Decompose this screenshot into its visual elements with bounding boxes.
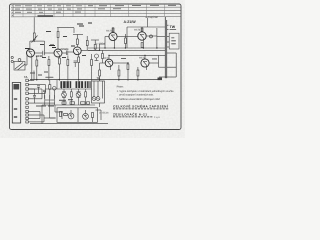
svg-text:CELKOVÉ SCHÉMA ZAPOJENÍ: CELKOVÉ SCHÉMA ZAPOJENÍ [113,105,168,109]
input pickup box [14,62,25,71]
svg-text:prvků zapojení uvedených zde.: prvků zapojení uvedených zde. [119,93,154,97]
potentiometer P3 (gain) [95,54,99,58]
supply rail wires (node +U) [88,47,165,49]
svg-text:OC72: OC72 [134,29,141,32]
svg-text:OC604: OC604 [61,48,70,51]
resistor R20 and capacitor C10 cluster [49,85,51,90]
rectifier module TR box [92,81,105,103]
wire runs left of output module [42,95,63,124]
transistor T4 [109,32,117,40]
wire (preamp output to power amp) [99,44,101,50]
input selector switch S1 [12,83,20,124]
svg-text:ZESILOVAČE A-21: ZESILOVAČE A-21 [113,113,148,117]
transistor T2 [54,49,62,57]
trimmer potentiometers P1 P2 and resistors [57,80,87,105]
resistor R3 (T1 emitter) [36,60,38,66]
transformer box with winding labels [169,33,179,49]
input jack at border [11,56,13,58]
capacitor C3 (T2 emitter bypass) [48,60,50,66]
capacitor C4 (coupling T2-T3) [62,52,67,54]
title-block table (revision strip) [11,7,181,17]
node junctions [34,40,158,80]
svg-text:2x 4GD4: 2x 4GD4 [95,43,105,46]
svg-text:TR: TR [97,77,101,80]
title text (bold typewriter with underline) [113,105,169,119]
transistor T6 (channel B driver) [109,54,165,56]
svg-text:OC71: OC71 [103,57,110,60]
svg-text:Pozn:: Pozn: [117,85,124,89]
capacitor C2 (coupling T1-T2) [34,52,43,54]
wire (output stage collector rail) [127,26,165,28]
electrolytic capacitors C20-C22 (filter bank) [60,81,90,88]
T1 emitter to ground bus [31,57,33,81]
terminal strip contacts [26,79,29,81]
transistor T3 [73,47,81,55]
svg-text:2x OC26: 2x OC26 [99,112,109,115]
svg-text:TW: TW [170,25,176,29]
labels in amp area [95,29,157,60]
svg-text:TA: TA [24,75,28,79]
ground bus wire [30,79,160,81]
terminal contacts (lower group) [26,106,29,108]
transistor T5 [138,32,146,40]
transistor T1 [27,49,35,57]
svg-text:2.vyd.: 2.vyd. [154,116,160,119]
capacitor C5 (T3 emitter) [74,60,78,62]
resistor R1 (T1 collector load) on supply riser wire [33,17,35,33]
output module box with transistors T8 T9 [57,102,101,123]
resistor R8 (feedback divider) [86,41,88,46]
svg-text:OC71: OC71 [106,30,113,33]
capacitors above output module [81,102,86,104]
transistor T7 (channel B output) [91,40,165,81]
capacitors C11-C13 (selector wiring) [37,85,40,87]
wire (mid distribution bus) [45,88,92,90]
resistor R15 (T6 emitter) [99,70,101,76]
svg-text:2. Měřeno univerzálním přístro: 2. Měřeno univerzálním přístrojem WM [117,98,160,101]
dark strip in bottom table row [38,15,54,17]
resistor R12 (T5 base bias) [125,38,127,44]
right supply bus [164,17,166,78]
svg-text:A-21/W: A-21/W [124,20,137,24]
border frame [10,4,182,130]
table cell text specks [12,5,176,17]
wire runs from terminal strip [28,79,34,81]
svg-text:OC72: OC72 [139,57,146,60]
pot arrow [32,36,38,43]
wire (T5 output to bus) [146,35,157,37]
wire (bottom return bus) [30,123,108,125]
wire (lower rail) [42,104,95,106]
tiny component labels upper area [25,23,92,58]
wire (T3 output, node A) [81,49,100,51]
